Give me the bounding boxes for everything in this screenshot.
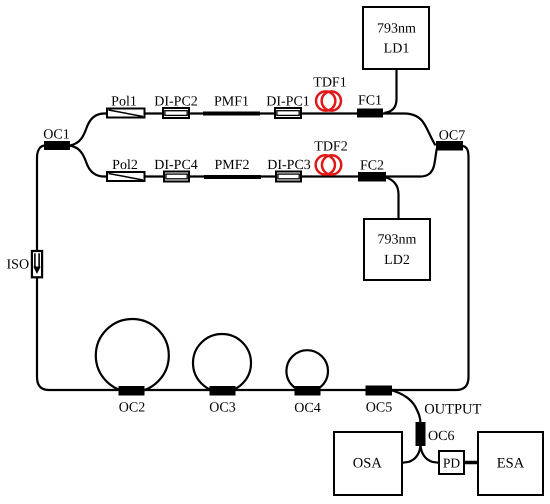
svg-text:OSA: OSA (353, 455, 383, 471)
svg-text:DI-PC2: DI-PC2 (154, 95, 198, 110)
svg-text:OC6: OC6 (428, 429, 454, 444)
wire OC6 to PD (421, 445, 440, 463)
polarization controller DI-PC2 (154, 95, 198, 119)
wire outer loop: left vertical, bottom rail, right vertical (37, 146, 469, 391)
svg-text:793nm: 793nm (378, 233, 417, 248)
svg-text:TDF1: TDF1 (313, 76, 346, 91)
svg-text:PD: PD (443, 455, 461, 470)
fiber PMF1 (203, 95, 260, 116)
svg-text:LD1: LD1 (384, 42, 410, 57)
svg-text:ISO: ISO (7, 258, 30, 273)
coupler OC2 (119, 386, 146, 416)
polarization controller DI-PC3 (267, 158, 311, 182)
fiber combiner FC1 (357, 94, 383, 118)
svg-text:PMF1: PMF1 (214, 95, 249, 110)
doped fiber coil TDF2 (314, 140, 347, 175)
wire FC2 to OC7 (386, 147, 437, 177)
laser diode box LD2 (364, 219, 430, 280)
coupler OC5 (366, 386, 393, 416)
wire PD to ESA (464, 461, 478, 465)
coupler OC6 vertical (416, 422, 455, 446)
svg-text:OC7: OC7 (439, 129, 465, 144)
wire upper branch OC1 to FC1 (70, 114, 383, 146)
coupler OC4 (294, 386, 320, 416)
wire FC1 to OC7 (383, 114, 436, 146)
svg-text:Pol1: Pol1 (111, 95, 137, 110)
svg-text:PMF2: PMF2 (214, 158, 249, 173)
svg-text:TDF2: TDF2 (314, 140, 347, 155)
photodetector PD (439, 451, 464, 474)
svg-text:DI-PC3: DI-PC3 (267, 158, 311, 173)
svg-text:OUTPUT: OUTPUT (424, 402, 481, 418)
loop OC3 circle (193, 334, 251, 392)
svg-text:DI-PC1: DI-PC1 (266, 95, 310, 110)
wire LD1 to FC1 (385, 69, 397, 113)
svg-text:Pol2: Pol2 (112, 158, 138, 173)
coupler OC3 (209, 386, 235, 416)
wire lower branch OC1 to FC2 (70, 146, 386, 177)
polarizer Pol1 (107, 95, 145, 118)
svg-text:DI-PC4: DI-PC4 (154, 158, 198, 173)
svg-text:FC2: FC2 (360, 159, 384, 174)
svg-text:FC1: FC1 (358, 94, 382, 109)
svg-text:OC3: OC3 (209, 401, 235, 416)
wire FC2 to LD2 (386, 178, 399, 220)
loop OC2 circle (96, 319, 169, 392)
svg-text:OC4: OC4 (294, 401, 320, 416)
doped fiber coil TDF1 (313, 76, 346, 111)
fiber combiner FC2 (358, 159, 386, 182)
isolator ISO (7, 251, 43, 277)
polarizer Pol2 (107, 158, 145, 181)
polarization controller DI-PC4 (154, 158, 198, 182)
loop OC4 circle (286, 350, 328, 392)
laser diode box LD1 (363, 7, 429, 69)
svg-text:LD2: LD2 (384, 253, 410, 268)
svg-text:793nm: 793nm (377, 21, 416, 36)
instrument box ESA (478, 432, 543, 495)
wire OC5 branch down to OC6 (392, 391, 421, 425)
wire OC6 to OSA (402, 445, 421, 463)
coupler OC7 (436, 129, 465, 151)
svg-text:ESA: ESA (497, 455, 525, 471)
svg-text:OC2: OC2 (119, 401, 145, 416)
svg-text:OC1: OC1 (43, 128, 69, 143)
coupler OC1 (43, 128, 70, 151)
instrument box OSA (334, 432, 402, 495)
fiber PMF2 (204, 158, 261, 179)
polarization controller DI-PC1 (266, 95, 310, 119)
svg-text:OC5: OC5 (366, 401, 392, 416)
